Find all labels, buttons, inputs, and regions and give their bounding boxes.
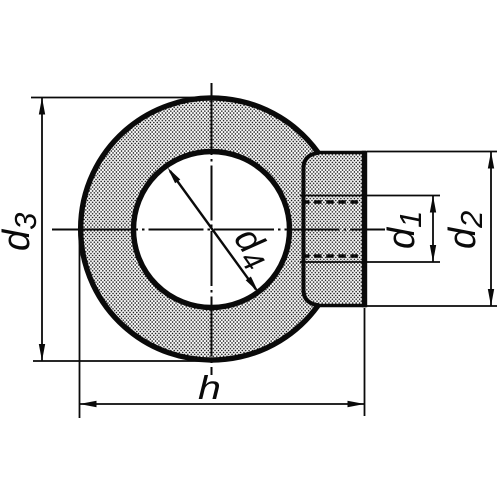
d1 extension line upper — [300, 195, 440, 197]
boss top face — [316, 151, 366, 155]
h extension line right — [364, 308, 366, 416]
d3 arrow top — [39, 98, 45, 115]
d3 arrow bottom — [39, 344, 45, 361]
d2 extension line upper — [367, 151, 497, 153]
d1 extension line lower — [300, 261, 440, 263]
d2 extension line lower — [367, 305, 497, 307]
d3 dimension line — [41, 98, 43, 362]
svg-text:d1: d1 — [381, 211, 428, 249]
d2 arrow top — [488, 152, 494, 169]
d2 arrow bottom — [488, 289, 494, 306]
svg-text:d2: d2 — [442, 211, 489, 249]
d1 arrow bottom — [430, 245, 436, 262]
vertical centerline — [211, 83, 213, 375]
inner bore circle — [134, 152, 290, 308]
h dimension line — [80, 403, 365, 405]
d1 arrow top — [430, 196, 436, 213]
hole (inner bore, white) — [134, 152, 290, 308]
boss chamfer contour — [304, 153, 319, 305]
h arrow right — [348, 401, 365, 407]
d2 dimension line — [490, 152, 492, 307]
d3 extension line top — [31, 97, 211, 99]
boss right edge — [362, 151, 367, 307]
thread hidden dashed line upper — [302, 200, 363, 204]
thread hidden dashed line lower — [302, 254, 363, 258]
svg-text:d3: d3 — [0, 213, 43, 251]
d3 extension line bottom — [33, 360, 216, 362]
d1 dimension line — [432, 196, 434, 263]
svg-text:h: h — [198, 369, 221, 406]
h arrow left — [80, 401, 97, 407]
d4 arrowhead upper — [168, 168, 181, 184]
boss bottom face — [316, 304, 366, 308]
ring body (stippled silhouette: ring plus boss) — [81, 98, 365, 360]
outer circle arc (ring silhouette) — [81, 98, 318, 360]
h extension line left — [79, 233, 81, 418]
d4 arrowhead lower — [246, 277, 259, 293]
horizontal centerline — [52, 229, 385, 231]
d4 diameter arrow — [170, 171, 256, 290]
